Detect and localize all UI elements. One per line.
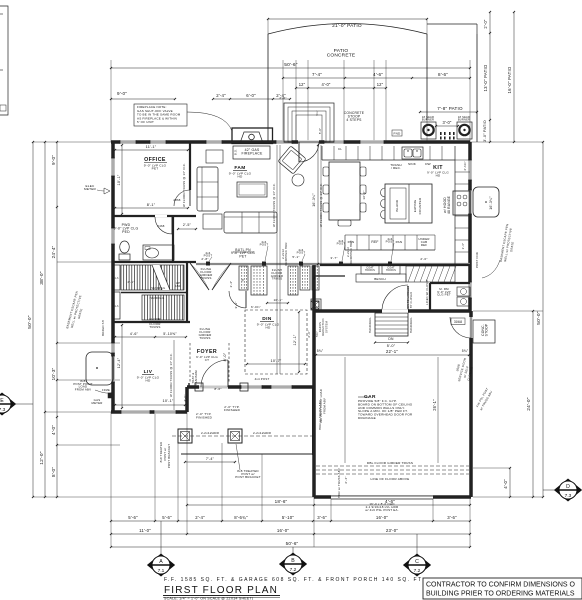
garage top wall [314,309,471,313]
garage door opening [331,496,433,499]
bottom dim row 5'-6 5'-6 2'-4 8'-6 5'-10 / 3'-6 16'-0 3'-6 [110,515,471,522]
svg-text:DIN: DIN [262,316,272,322]
treated post note center [235,444,261,479]
dim line 13'-0 patio right [483,11,491,143]
svg-text:FAM: FAM [234,165,245,171]
svg-text:16'-3¼": 16'-3¼" [312,193,316,207]
dim line 16'-0 patio far right [507,11,515,143]
svg-text:50'-6": 50'-6" [286,541,299,546]
gas meter [91,388,114,405]
porch post right 8x8 [228,429,242,443]
svg-text:REF: REF [371,240,378,244]
svg-text:2'-8": 2'-8" [201,257,208,261]
svg-text:16'-0": 16'-0" [362,190,366,199]
section marker C [404,534,431,576]
right extension wires [470,142,543,497]
svg-text:16'-3¼": 16'-3¼" [489,196,493,210]
patio right edge wire [426,34,428,120]
wall foyer-liv dashed opening [189,343,191,383]
mud room M RM [407,279,470,312]
butler pantry cabinet right [288,266,319,295]
svg-text:w/ HOOD: w/ HOOD [443,197,447,213]
svg-text:5'-6": 5'-6" [162,515,172,520]
fam sofa left vertical [197,167,218,211]
stair labels [127,280,181,329]
right dim line 24'-0 garage [526,310,534,498]
svg-text:CONTRACTOR TO CONFIRM DIMENSIO: CONTRACTOR TO CONFIRM DIMENSIONS O [426,582,576,589]
svg-text:3'-1": 3'-1" [234,301,238,308]
svg-text:2'-0": 2'-0" [420,257,427,261]
wall pwd right [172,217,174,262]
svg-text:FLOORTRUSS: FLOORTRUSS [149,317,161,324]
svg-text:7'-4": 7'-4" [312,72,322,77]
bottom dim 18'-6 [186,499,471,506]
pwd door arc [155,216,172,234]
range 48in with hood [443,191,470,215]
window top wall fam left [206,140,222,144]
svg-text:7.3: 7.3 [0,407,6,413]
dim line 21'-0 PATIO across patio arc [267,18,428,34]
svg-text:24'-4": 24'-4" [51,245,56,258]
svg-text:7.2: 7.2 [290,567,297,573]
window front wall LIV 1 [121,410,150,414]
svg-text:4'-0": 4'-0" [503,479,508,489]
window right wall kitchen [468,160,472,180]
fireplace bumpout [232,128,273,144]
svg-text:1-h: 1-h [114,305,119,308]
office door arc [173,190,190,206]
garage right wall [469,311,473,497]
svg-text:SCALE: 1/4" = 1'-0" ON SCALE @: SCALE: 1/4" = 1'-0" ON SCALE @ 22X34 SHE… [164,597,253,600]
service door note rot [455,357,474,382]
garage bottom wall [314,495,471,499]
svg-text:4x4 POST: 4x4 POST [255,377,270,381]
svg-text:FFME: FFME [102,388,110,392]
svg-text:4'-0": 4'-0" [51,425,56,435]
basement escape window well bumpout right [473,187,499,217]
svg-text:11'-0": 11'-0" [139,528,151,533]
svg-text:5'-0": 5'-0" [387,344,396,348]
LIV bottom front wall [111,410,187,414]
garage dim 26'-1 rot [319,357,438,463]
dim 9'-0 top left [110,91,176,100]
svg-text:9'-0": 9'-0" [51,155,56,165]
fam round side table [292,174,304,186]
bottom extension wires [111,412,470,547]
svg-text:26'-1": 26'-1" [432,399,437,411]
svg-text:HDR w/ TRUSS ABV: HDR w/ TRUSS ABV [318,400,322,430]
svg-text:18'-6": 18'-6" [275,499,288,504]
svg-text:HANDRAIL: HANDRAIL [368,317,372,333]
fam coffee table [237,182,267,197]
svg-text:3'-6": 3'-6" [317,515,327,520]
porch dim 7'-4 [184,457,236,463]
garage right post notes rot [475,252,493,411]
svg-text:W FLOOR TRUSS @ 16" O.C.: W FLOOR TRUSS @ 16" O.C. [272,183,276,227]
stoop step dims [279,96,322,134]
cut-off note box at top-left page edge [0,6,8,115]
patio left edge wire [267,34,269,142]
svg-text:HANDRAIL: HANDRAIL [151,286,166,290]
office dim 10'-1 rot [117,144,123,215]
porch slab edge [181,453,313,455]
porch post left 8x8 [178,429,192,443]
svg-text:16'-0 x 8'-0 OHD2-1 9/16x18 LV: 16'-0 x 8'-0 OHD2-1 9/16x18 LVL HDRw/ 4x… [365,502,399,512]
svg-text:FROM ABV: FROM ABV [323,398,327,414]
svg-text:F.F. 1585 SQ. FT. & GARAGE 608: F.F. 1585 SQ. FT. & GARAGE 608 SQ. FT. &… [164,577,423,583]
window left wall office [111,158,115,176]
window top wall office 2 [150,140,166,144]
left dim line segments 9'-0 24'-4 etc [51,141,58,498]
porch header dashed line [172,431,313,436]
svg-text:4'-6¾": 4'-6¾" [463,161,467,170]
window left wall pwd [111,228,115,244]
svg-text:LINE OF FLOOR ABOVE: LINE OF FLOOR ABOVE [371,477,410,481]
svg-text:5'-1": 5'-1" [292,255,299,259]
svg-text:12'-4": 12'-4" [117,357,121,368]
section marker E [0,393,33,415]
din tray ceiling dashed [245,310,307,374]
svg-text:CL: CL [338,147,342,151]
fam end table upper [206,150,223,163]
liv dim row 4-6 / 5-10 [114,332,187,338]
svg-text:EATING: EATING [413,199,417,212]
svg-text:11'-1": 11'-1" [146,145,157,149]
svg-text:FLUSHFLOORGIRDERTRUSS: FLUSHFLOORGIRDERTRUSS [199,327,213,340]
exterior wall left [111,142,115,412]
svg-text:16'-0" PATIO: 16'-0" PATIO [507,66,512,93]
svg-text:2868: 2868 [173,198,180,202]
post point load note [73,379,113,393]
concrete stoop with steps [284,103,334,142]
svg-text:23'-0": 23'-0" [386,528,398,533]
svg-text:5¾": 5¾" [315,331,319,337]
svg-text:LIV: LIV [144,369,153,375]
svg-text:HANDRAIL: HANDRAIL [409,317,413,333]
stair closet cells left [113,265,120,319]
svg-text:FIRST FLOOR PLAN: FIRST FLOOR PLAN [164,585,278,596]
stair center rail [121,292,187,294]
label BUTL PN [231,248,255,258]
garage house door opening [382,309,408,312]
liv truss note rot [169,340,187,410]
radon note rot [318,318,328,335]
svg-text:7.1: 7.1 [158,568,165,574]
svg-text:COATHOOKS: COATHOOKS [365,267,375,272]
bottom dim row 11'-0 16'-0 23'-0 [110,528,471,535]
treated post note left rot [159,442,171,469]
svg-text:4'-6": 4'-6" [373,72,383,77]
label GAR with note [358,394,413,420]
window top wall fam right [276,140,292,144]
left dim line 50'-0 [27,141,34,498]
dim row 7'-4 / 4'-6 / 8'-6 [282,72,471,79]
svg-text:8x8POST POINTLOADFROM ABV: 8x8POST POINTLOADFROM ABV [73,379,92,391]
svg-text:16'-0": 16'-0" [277,528,289,533]
wall office bottom / pwd top [113,215,196,217]
svg-text:3068: 3068 [454,320,462,324]
butler small fixture [311,299,321,310]
dim line 50'-6 top [110,62,471,69]
window top wall kitchen 1 [324,140,344,144]
note basement escape right [482,223,515,278]
svg-text:12'-1": 12'-1" [293,334,297,345]
svg-text:16'-0": 16'-0" [376,515,388,520]
liv dim rot 12'-4 [117,324,123,409]
svg-text:2-2x12HDR: 2-2x12HDR [201,431,220,435]
kitchen sink double bowl [402,147,423,159]
svg-text:2'-0" TYP.FINISHED: 2'-0" TYP.FINISHED [224,405,241,412]
label LIV [137,369,160,383]
svg-text:BUILDING PRIER TO ORDERING MAT: BUILDING PRIER TO ORDERING MATERIALS [426,591,575,598]
coat hooks boxes [361,265,400,274]
svg-text:13'-0" PATIO: 13'-0" PATIO [483,64,488,91]
svg-text:4'-0": 4'-0" [183,394,187,401]
garage corner post with X [311,301,319,309]
svg-text:3'-0" PATIO: 3'-0" PATIO [483,120,487,142]
svg-text:6'-0¾": 6'-0¾" [251,305,261,309]
service door opening garage right wall [450,317,471,338]
window front wall dining 2 [271,385,292,389]
svg-text:12": 12" [299,82,306,87]
stair break line diagonal [152,265,170,290]
svg-text:48 RANGE: 48 RANGE [447,195,451,214]
contractor note box [423,578,582,599]
window front wall LIV 2 [154,410,176,414]
section marker A [148,521,175,576]
svg-text:FINISHED: FINISHED [196,416,213,420]
svg-text:12'-0": 12'-0" [39,451,45,465]
garage left hdr note rot [318,400,348,498]
exterior wall top (rear) [111,140,470,144]
stairs to garage [368,313,413,348]
office dim 8'-1 [114,203,189,209]
fireplace note box [134,104,232,131]
svg-text:SINK: SINK [408,162,417,166]
label TRASH REC SINK DW [390,162,431,170]
svg-text:4'-0": 4'-0" [321,82,330,87]
svg-text:PAN: PAN [396,240,403,244]
garage dim 22'-1 [315,349,470,356]
left dim line 38'-0 / 12'-0 [39,141,46,498]
svg-text:2'-6": 2'-6" [279,96,286,100]
svg-text:DBL FLOOR GIRDER TRUSS: DBL FLOOR GIRDER TRUSS [367,461,413,465]
rear door opening at stoop [298,142,319,162]
wall stair right x187 [186,262,188,322]
svg-text:DROPPED HDR: DROPPED HDR [284,242,288,265]
svg-text:5'-10": 5'-10" [282,515,294,520]
liv dim 10'-1 [114,399,186,406]
basement escape window opening right [468,190,472,214]
svg-text:15R: 15R [175,284,181,288]
kitchen lower cabinets row [345,235,435,250]
svg-text:D: D [566,484,570,490]
svg-text:DW: DW [425,162,431,166]
svg-text:DN: DN [388,337,394,341]
kitchen bottom wall segment [320,264,470,266]
main stair up (hatched treads) [121,265,184,290]
office dim 11'-1 [114,145,189,151]
svg-text:LINEN W/ CLOSET: LINEN W/ CLOSET [425,279,429,305]
svg-text:C: C [415,559,419,565]
svg-text:3'-0": 3'-0" [442,120,451,125]
svg-text:50'-6": 50'-6" [284,62,298,68]
kitchen right counter [455,146,470,265]
din dim 12'-1 rot [293,311,300,373]
svg-text:1-h: 1-h [114,277,119,280]
svg-text:18 SEARBURNER: 18 SEARBURNER [458,115,470,121]
svg-text:1'-6": 1'-6" [461,243,465,250]
svg-text:COATHOOKS: COATHOOKS [386,267,396,272]
outdoor grill burner left [421,115,436,139]
island stools [381,188,386,219]
dim row 2'-4 / 6'-0 / 2'-4 over fireplace [212,93,291,100]
pwd dim 2-5 [177,223,197,230]
svg-text:W FLOOR TRUSS @ 16" O.C.: W FLOOR TRUSS @ 16" O.C. [169,353,173,397]
mud lockers hatched band [406,266,456,282]
svg-text:3'-7": 3'-7" [330,256,337,260]
svg-text:2'-4": 2'-4" [344,476,348,483]
svg-text:7.2: 7.2 [414,568,421,574]
left extension wires [33,142,314,497]
svg-text:2'-4": 2'-4" [216,93,226,98]
svg-text:FLUSHFLOORGIRDERTRUSS: FLUSHFLOORGIRDERTRUSS [200,267,214,280]
window left wall LIV well opening [111,356,115,382]
svg-text:B.O.: B.O. [234,149,238,155]
butler pantry cabinet left [239,266,267,295]
mud hall bottom wall [314,275,345,277]
svg-text:7.3: 7.3 [565,493,572,499]
wall liv top [113,321,190,323]
svg-text:2'-4": 2'-4" [195,515,205,520]
svg-text:38'-0": 38'-0" [39,271,45,285]
svg-text:24'-0": 24'-0" [526,397,532,411]
butler aisle dim [229,281,289,304]
svg-text:FND: FND [394,132,402,136]
svg-text:5¾": 5¾" [462,349,469,353]
window top wall kitchen 2 [360,140,384,144]
gas valve glyphs between burners [440,132,455,140]
svg-text:DROPPED HDR: DROPPED HDR [349,240,353,263]
patio arc outline [268,24,427,35]
bench [356,274,406,282]
note basement escape left [65,291,83,329]
porch small dims [196,405,241,420]
svg-text:8'-1": 8'-1" [147,203,156,207]
extension wires top dims [111,34,477,142]
main stair lower flight [142,295,184,320]
svg-text:10'-3": 10'-3" [51,367,56,380]
svg-text:10'-7": 10'-7" [271,359,282,363]
fam armchair rotated [278,146,306,174]
svg-text:5¼": 5¼" [315,110,319,115]
right dim line 50'-0 [536,141,544,498]
hall double doors vees [190,263,231,290]
FND gas tag [392,130,402,136]
kitchen island [385,184,432,223]
svg-text:18 SEARBURNER: 18 SEARBURNER [422,115,434,121]
svg-text:8'-0": 8'-0" [223,352,227,361]
svg-text:W: W [241,278,245,281]
wall office right [189,142,191,190]
outdoor grill burner right [457,115,472,139]
garage girder truss dashed [316,461,469,481]
svg-text:3'-6": 3'-6" [447,515,457,520]
svg-text:22'-1": 22'-1" [386,349,398,354]
svg-text:POST BRACKET: POST BRACKET [167,444,171,469]
dim row 12/12/4'-0 [295,82,387,89]
window top wall office 1 [120,140,136,144]
foyer front posts [195,383,203,391]
foyer-din door arc [229,291,246,308]
svg-text:ISLAND: ISLAND [395,199,399,212]
svg-text:5'-6": 5'-6" [128,515,138,520]
svg-text:HDR w/ TRUSS ABV: HDR w/ TRUSS ABV [337,468,341,498]
svg-text:2'-5": 2'-5" [183,223,192,227]
svg-text:8'-0": 8'-0" [51,467,56,477]
svg-text:5¾": 5¾" [317,349,324,353]
svg-text:2'-0": 2'-0" [307,330,311,337]
svg-text:5'-0": 5'-0" [318,128,322,134]
svg-text:10'-1": 10'-1" [117,174,121,185]
svg-text:2468: 2468 [157,224,164,228]
front door opening with sidelites [199,360,228,387]
3068 door tag [451,318,465,325]
section marker D [543,479,582,501]
svg-text:10'-1": 10'-1" [273,298,282,302]
patio upper right edge [427,23,477,25]
window left wall stair small [111,343,115,353]
porch side wall stub [312,387,314,455]
section marker B [280,547,307,575]
svg-text:9'-0": 9'-0" [117,91,127,96]
fam end table lower [203,214,222,229]
svg-text:12": 12" [377,82,384,87]
svg-text:W FLOOR TRUSS @ 16" O.C.: W FLOOR TRUSS @ 16" O.C. [182,163,186,207]
svg-text:BOXED SH: BOXED SH [101,320,105,336]
garage left wall [312,265,316,497]
svg-text:REF: REF [421,243,427,247]
pwd toilet [119,241,130,260]
svg-text:50'-0": 50'-0" [536,311,542,325]
wall foyer-liv x190 lower [188,383,190,387]
elec meter symbol [84,184,110,194]
bottom dim 50'-6 overall [110,541,471,548]
dining table with chairs [323,162,366,226]
wall hall y262 left block [113,261,196,263]
service door conc stoop [473,320,495,343]
fam-kitchen dim lines vertical [272,144,321,374]
window right wall mudroom [468,282,472,298]
svg-text:SYSTEM: SYSTEM [324,321,328,333]
svg-text:BENCH: BENCH [374,277,386,281]
fam sofa bottom horizontal [224,212,277,233]
kitchen upper counter with cells [322,146,455,160]
pwd vanity [143,245,174,260]
svg-text:6'-0": 6'-0" [246,93,256,98]
svg-text:B: B [291,558,295,564]
svg-text:5'-10⅝": 5'-10⅝" [163,332,177,336]
right small dim 4'-0 [503,467,511,498]
wall foyer right dashed opening [228,343,230,383]
left window well rounded [86,352,113,385]
din dim 10'-7 [246,359,306,365]
svg-text:2-2x12HDR: 2-2x12HDR [253,431,272,435]
svg-text:50'-0": 50'-0" [27,315,33,329]
svg-text:COUNTER: COUNTER [418,197,422,214]
header post squares [206,262,392,266]
svg-text:2'-4": 2'-4" [229,281,233,288]
